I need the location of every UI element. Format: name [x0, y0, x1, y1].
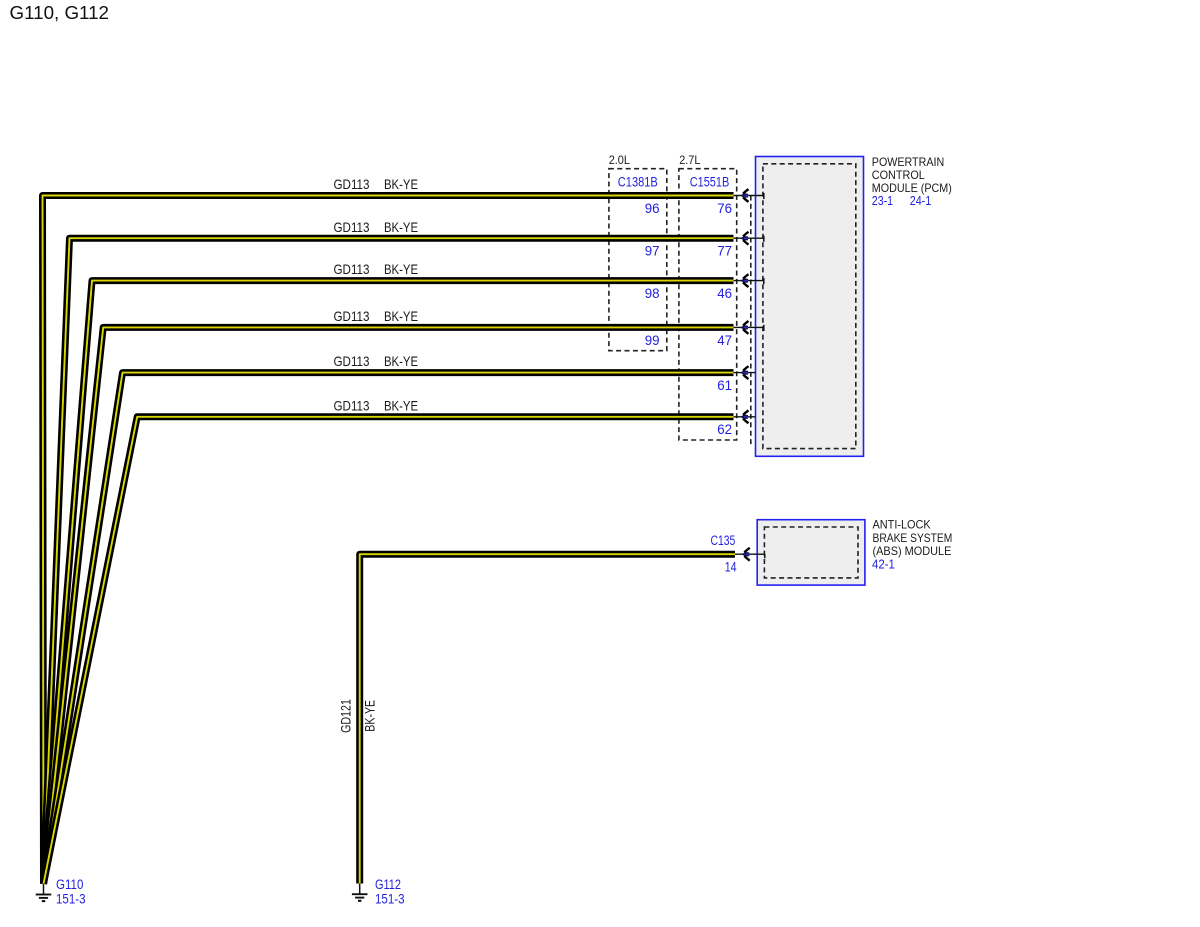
svg-text:GD113: GD113 — [334, 177, 370, 192]
ABS module inner dashed outline — [764, 527, 858, 578]
pin line to PCM pin 62 — [734, 416, 756, 418]
PCM module U1 box — [756, 157, 864, 457]
svg-text:76: 76 — [717, 200, 732, 216]
svg-text:POWERTRAINCONTROLMODULE (PCM): POWERTRAINCONTROLMODULE (PCM) — [872, 155, 952, 195]
wire GD113 BK-YE #5 — [44, 373, 734, 884]
ground symbol G112 — [352, 884, 368, 901]
svg-text:47: 47 — [717, 332, 732, 348]
svg-text:77: 77 — [717, 243, 732, 259]
svg-text:BK-YE: BK-YE — [363, 700, 378, 732]
arrowhead at PCM pin 62 — [740, 410, 748, 423]
svg-text:GD113: GD113 — [334, 220, 370, 235]
wire GD121 BK-YE — [360, 554, 735, 883]
pin line to PCM pin 46 — [734, 278, 764, 284]
svg-text:G110: G110 — [56, 877, 83, 892]
PCM module inner dashed outline — [763, 164, 856, 449]
svg-text:42-1: 42-1 — [872, 557, 895, 571]
svg-text:2.0L: 2.0L — [609, 153, 630, 167]
pin line to PCM pin 77 — [734, 236, 764, 242]
pin line to ABS pin 14 — [735, 554, 765, 558]
svg-text:2.7L: 2.7L — [679, 153, 700, 167]
arrowhead at PCM pin 47 — [740, 321, 748, 334]
connector C1551B dashed box (2.7L) — [679, 169, 737, 440]
svg-text:ANTI-LOCKBRAKE SYSTEM(ABS) MOD: ANTI-LOCKBRAKE SYSTEM(ABS) MODULE — [873, 518, 953, 558]
arrowhead at PCM pin 76 — [740, 189, 748, 202]
svg-text:24-1: 24-1 — [910, 194, 932, 208]
wire GD113 BK-YE #1 — [43, 196, 734, 884]
connector C1381B dashed box (2.0L) — [609, 169, 667, 351]
svg-text:GD113: GD113 — [334, 309, 370, 324]
svg-text:BK-YE: BK-YE — [384, 354, 418, 369]
wire GD113 BK-YE #6 — [44, 417, 734, 884]
svg-text:BK-YE: BK-YE — [384, 262, 418, 277]
ABS module U2 box — [757, 520, 865, 585]
svg-text:99: 99 — [645, 332, 660, 348]
svg-text:GD113: GD113 — [334, 354, 370, 369]
arrowhead at PCM pin 61 — [740, 366, 748, 379]
svg-text:BK-YE: BK-YE — [384, 398, 418, 413]
svg-text:23-1: 23-1 — [872, 194, 893, 208]
svg-text:G110, G112: G110, G112 — [10, 3, 110, 23]
svg-text:98: 98 — [645, 285, 660, 301]
svg-text:C1551B: C1551B — [690, 175, 730, 190]
svg-text:151-3: 151-3 — [375, 891, 405, 906]
svg-text:C1381B: C1381B — [618, 175, 658, 190]
svg-text:GD113: GD113 — [334, 262, 370, 277]
svg-text:BK-YE: BK-YE — [384, 220, 418, 235]
svg-text:BK-YE: BK-YE — [384, 309, 418, 324]
svg-text:151-3: 151-3 — [56, 891, 86, 906]
svg-text:C135: C135 — [711, 533, 736, 548]
svg-text:96: 96 — [645, 200, 660, 216]
svg-text:61: 61 — [717, 377, 732, 393]
svg-text:G112: G112 — [375, 877, 401, 892]
PCM connector face dashed line — [750, 196, 752, 445]
arrowhead at ABS pin 14 — [742, 548, 750, 561]
wire GD113 BK-YE #3 — [44, 281, 734, 884]
svg-text:14: 14 — [725, 559, 737, 575]
svg-text:46: 46 — [717, 285, 732, 301]
svg-text:GD121: GD121 — [339, 699, 354, 733]
ground symbol G110 — [36, 884, 52, 901]
svg-text:97: 97 — [645, 243, 660, 259]
arrowhead at PCM pin 46 — [740, 274, 748, 287]
pin line to PCM pin 61 — [734, 372, 756, 374]
wire GD113 BK-YE #2 — [44, 238, 734, 884]
svg-text:BK-YE: BK-YE — [384, 177, 418, 192]
arrowhead at PCM pin 77 — [740, 232, 748, 245]
svg-text:62: 62 — [717, 421, 732, 437]
pin line to PCM pin 47 — [734, 325, 764, 331]
svg-text:GD113: GD113 — [334, 398, 370, 413]
pin line to PCM pin 76 — [734, 193, 764, 199]
wire GD113 BK-YE #4 — [44, 327, 734, 883]
